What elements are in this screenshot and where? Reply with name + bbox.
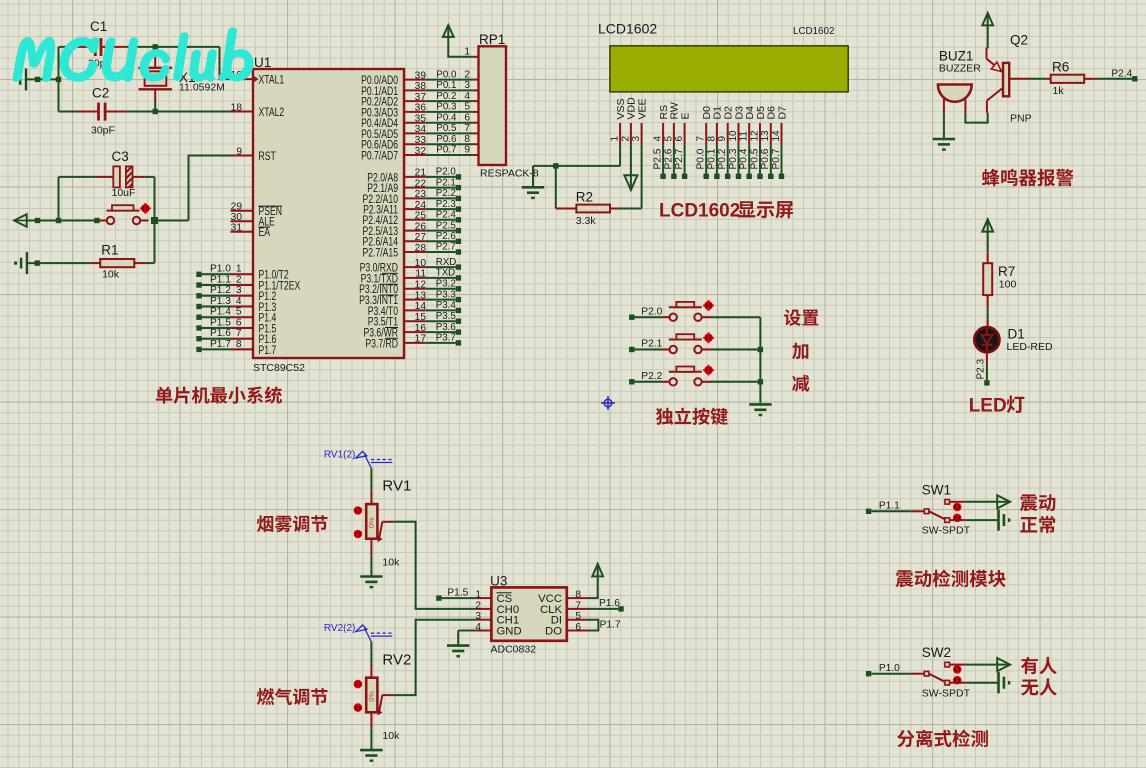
potentiometer RV1	[370, 468, 372, 490]
svg-text:39: 39	[415, 70, 427, 81]
svg-text:R2: R2	[576, 190, 593, 205]
caption 分离式检测	[897, 730, 988, 748]
resistor R6	[1046, 78, 1051, 80]
pin 27 P2.6/A14 wire	[404, 240, 426, 242]
wire P1.5 to CS	[441, 597, 476, 599]
svg-text:P2.4: P2.4	[1111, 69, 1132, 80]
wire to R1	[154, 221, 156, 264]
svg-text:P1.0: P1.0	[210, 264, 231, 275]
svg-text:14: 14	[771, 130, 782, 142]
svg-text:C3: C3	[112, 149, 129, 164]
svg-text:3.3k: 3.3k	[576, 215, 597, 227]
pin 24 P2.3/A11 wire	[404, 208, 426, 210]
junction dot crystal top	[153, 44, 158, 49]
svg-text:1: 1	[236, 264, 242, 275]
wire button row	[27, 220, 97, 222]
svg-text:34: 34	[415, 124, 427, 135]
wire RV1 bottom to ground	[370, 539, 372, 555]
svg-text:ADC0832: ADC0832	[491, 644, 537, 656]
svg-text:31: 31	[231, 223, 243, 234]
svg-text:P0.7: P0.7	[436, 145, 456, 156]
svg-text:P0.5: P0.5	[436, 123, 457, 134]
svg-text:P0.5: P0.5	[749, 148, 760, 169]
wire SW2 throw A to power	[950, 664, 966, 666]
svg-text:Q2: Q2	[1010, 33, 1028, 48]
ground symbol (RV2)	[360, 749, 382, 752]
svg-text:0%: 0%	[367, 691, 376, 702]
caption 蜂鸣器报警	[982, 169, 1074, 186]
ground symbol (R1)	[26, 252, 28, 274]
junction dot	[35, 260, 40, 265]
svg-text:D7: D7	[776, 106, 788, 120]
resistor R1	[134, 262, 145, 264]
svg-text:D1: D1	[1008, 327, 1025, 342]
capacitor C1	[78, 46, 94, 48]
svg-text:6: 6	[464, 112, 470, 123]
pin 16 P3.6/WR wire	[404, 331, 426, 333]
key button 2	[634, 349, 662, 351]
U3 pin 8 VCC stub	[567, 597, 588, 599]
svg-text:12: 12	[415, 280, 427, 291]
svg-text:10k: 10k	[382, 730, 400, 742]
svg-text:8: 8	[575, 590, 581, 601]
svg-text:18: 18	[231, 102, 243, 113]
pin 34 P0.5/AD5 wire to RP1 pin 7	[404, 132, 426, 134]
svg-text:P1.5: P1.5	[210, 317, 231, 328]
svg-text:36: 36	[415, 103, 427, 114]
terminal P1.0	[866, 671, 871, 676]
wire XTAL1 net (crystal to pin19)	[220, 47, 231, 79]
svg-text:6: 6	[575, 622, 581, 633]
svg-text:27: 27	[415, 232, 427, 243]
wire power to R7	[987, 232, 989, 253]
resistor R2	[556, 208, 577, 210]
terminal + wire P1.5 (pin 6)	[196, 325, 201, 330]
svg-text:P2.0: P2.0	[436, 167, 457, 178]
terminal P1.5	[436, 595, 441, 600]
svg-text:P0.0: P0.0	[436, 69, 457, 80]
svg-text:P3.7/RD: P3.7/RD	[365, 338, 398, 351]
ground symbol right (SW1)	[997, 510, 1000, 531]
junction dot	[758, 379, 763, 384]
svg-text:P2.0: P2.0	[641, 306, 662, 317]
wire RV1 wiper to CH0	[379, 522, 382, 538]
svg-text:P3.5: P3.5	[436, 311, 456, 322]
pin 35 P0.4/AD4 wire to RP1 pin 6	[404, 122, 426, 124]
svg-text:11: 11	[739, 131, 750, 142]
power terminal down (VDD)	[624, 175, 637, 190]
junction dot at rail	[56, 77, 61, 82]
svg-text:17: 17	[415, 334, 427, 345]
svg-text:5: 5	[663, 136, 674, 142]
pin 22 P2.1/A9 wire	[404, 187, 426, 189]
caption 震动检测模块	[896, 570, 1006, 588]
svg-text:P0.6: P0.6	[436, 134, 457, 145]
pin 21 P2.0/A8 wire	[404, 176, 426, 178]
svg-text:7: 7	[464, 123, 470, 134]
svg-text:C2: C2	[92, 86, 109, 101]
pin 37 P0.2/AD2 wire to RP1 pin 4	[404, 100, 426, 102]
svg-text:LED: LED	[969, 396, 1007, 417]
svg-text:U3: U3	[490, 574, 507, 589]
svg-text:4: 4	[653, 136, 664, 142]
svg-text:14: 14	[415, 301, 427, 312]
svg-text:2: 2	[475, 600, 481, 611]
svg-text:VEE: VEE	[636, 98, 648, 119]
svg-text:3: 3	[236, 285, 242, 296]
power terminal (VCC) left	[14, 220, 27, 222]
caption 震动	[1020, 494, 1056, 511]
wire D1 to P2.3 terminal	[986, 352, 988, 363]
svg-text:RST: RST	[259, 151, 277, 164]
svg-text:1: 1	[475, 590, 481, 601]
wire C3 left to button row rail	[58, 177, 60, 221]
switch SW1 SW-SPDT	[871, 510, 910, 512]
wire R6 to P2.4 terminal	[1098, 78, 1133, 80]
wire RP1 pin 1	[448, 37, 472, 57]
svg-text:4: 4	[236, 296, 242, 307]
svg-text:24: 24	[415, 200, 427, 211]
svg-text:P1.0: P1.0	[879, 663, 900, 674]
junction dot (RST node)	[151, 217, 158, 224]
probe marker RV2(2)	[356, 625, 393, 642]
svg-text:P3.4: P3.4	[436, 300, 457, 311]
caption 单片机最小系统	[156, 386, 282, 403]
wire C3 right down to junction	[154, 177, 156, 221]
transistor Q2 PNP	[986, 47, 988, 58]
svg-text:P0.0: P0.0	[696, 148, 707, 169]
svg-text:XTAL1: XTAL1	[259, 74, 285, 87]
svg-text:35: 35	[415, 114, 427, 125]
svg-text:30: 30	[231, 212, 243, 223]
buzzer BUZ1	[943, 95, 945, 113]
wire CLK to P1.6 terminal	[588, 608, 618, 610]
svg-text:P0.2: P0.2	[436, 91, 456, 102]
wire SW2 throw B to ground	[950, 682, 966, 684]
svg-text:TXD: TXD	[436, 268, 455, 279]
svg-text:P1.6: P1.6	[210, 328, 231, 339]
caption 正常	[1020, 516, 1055, 533]
svg-text:2: 2	[464, 69, 470, 80]
pin 39 P0.0/AD0 wire to RP1 pin 2	[404, 79, 426, 81]
U3 pin 6 DO stub	[567, 630, 588, 632]
svg-text:STC89C52: STC89C52	[253, 362, 305, 374]
pin 30 ALE stub	[231, 220, 254, 222]
svg-text:11: 11	[415, 269, 426, 280]
crystal X1	[154, 47, 156, 57]
svg-text:P2.5: P2.5	[653, 148, 664, 169]
wire VEE down	[641, 144, 643, 208]
svg-text:P1.5: P1.5	[447, 588, 468, 599]
power terminal right (SW2)	[997, 658, 1010, 671]
svg-text:P2.6: P2.6	[436, 231, 456, 242]
svg-text:26: 26	[415, 221, 427, 232]
switch SW2 SW-SPDT	[871, 673, 910, 675]
terminal P2.1	[629, 347, 634, 352]
svg-text:3: 3	[631, 136, 642, 142]
svg-text:R6: R6	[1052, 60, 1069, 75]
svg-text:7: 7	[575, 600, 581, 611]
caption 有人	[1021, 657, 1057, 674]
pin 10 P3.0/RXD wire	[404, 266, 426, 268]
svg-text:P2.2: P2.2	[436, 188, 456, 199]
ground symbol (C1/C2 rail)	[25, 68, 27, 90]
svg-text:9: 9	[717, 136, 728, 142]
svg-text:RV2(2): RV2(2)	[324, 623, 356, 634]
wire R2 branch	[555, 166, 557, 209]
svg-text:30pF: 30pF	[91, 125, 115, 137]
terminal P2.0	[629, 315, 634, 320]
ground symbol (U3)	[447, 644, 469, 647]
svg-text:100: 100	[999, 279, 1017, 291]
terminal P2.3	[984, 380, 989, 385]
svg-text:P0.6: P0.6	[760, 148, 771, 169]
svg-text:5: 5	[236, 307, 242, 318]
svg-text:P0.3: P0.3	[728, 148, 739, 169]
svg-text:P0.3: P0.3	[436, 102, 457, 113]
svg-text:E: E	[679, 112, 691, 119]
svg-text:BUZ1: BUZ1	[939, 49, 974, 64]
probe marker RV1(2)	[356, 451, 393, 468]
wire VDD to power	[630, 144, 632, 175]
svg-text:P1.1: P1.1	[210, 274, 231, 285]
svg-text:10: 10	[415, 258, 427, 269]
svg-text:LCD1602: LCD1602	[659, 201, 740, 222]
svg-text:P1.1: P1.1	[879, 501, 900, 512]
svg-text:5: 5	[575, 611, 581, 622]
svg-text:P2.1: P2.1	[641, 339, 662, 350]
svg-text:P1.7: P1.7	[259, 345, 277, 358]
svg-text:P3.7: P3.7	[436, 333, 456, 344]
caption 无人	[1021, 678, 1057, 695]
svg-text:P2.1: P2.1	[436, 177, 456, 188]
svg-text:EA: EA	[259, 227, 271, 240]
svg-text:P3.6: P3.6	[436, 322, 456, 333]
svg-text:23: 23	[415, 189, 427, 200]
pin 23 P2.2/A10 wire	[404, 197, 426, 199]
svg-text:R7: R7	[998, 264, 1015, 279]
wire RV2 wiper to CH1	[379, 695, 382, 711]
svg-text:25: 25	[415, 211, 427, 222]
power terminal (U3 VCC)	[592, 564, 603, 577]
pin 9 RST stub	[231, 155, 254, 157]
svg-text:P3.2: P3.2	[436, 279, 456, 290]
wire VCC to power	[588, 576, 598, 598]
wire GND pin to ground	[458, 630, 476, 632]
junction dot VSS/R2	[553, 163, 558, 168]
svg-text:SW-SPDT: SW-SPDT	[922, 687, 971, 699]
pin 29 PSEN stub	[231, 210, 254, 212]
wire RST net	[158, 220, 189, 222]
terminal P2.4	[1132, 76, 1137, 81]
potentiometer RV2	[370, 642, 372, 664]
svg-text:6: 6	[236, 317, 242, 328]
pin 36 P0.3/AD3 wire to RP1 pin 5	[404, 111, 426, 113]
LED D1	[987, 319, 989, 328]
caption 独立按键	[656, 408, 728, 425]
svg-text:0%: 0%	[367, 517, 376, 528]
svg-text:32: 32	[415, 146, 427, 157]
svg-text:6: 6	[674, 136, 685, 142]
svg-text:P2.6: P2.6	[663, 148, 674, 169]
wire top XTAL1 net	[59, 46, 79, 48]
svg-text:P1.7: P1.7	[600, 619, 621, 630]
svg-text:P0.4: P0.4	[436, 112, 457, 123]
junction dot rail	[56, 218, 61, 223]
svg-text:BUZZER: BUZZER	[939, 63, 981, 75]
svg-text:RESPACK-8: RESPACK-8	[480, 168, 539, 180]
respack RP1 body	[479, 46, 507, 165]
svg-text:SW2: SW2	[922, 645, 951, 660]
svg-text:P2.3: P2.3	[976, 358, 987, 379]
svg-text:4: 4	[475, 622, 481, 633]
svg-text:P2.7: P2.7	[674, 148, 685, 169]
junction dot before button	[94, 218, 99, 223]
svg-text:13: 13	[760, 130, 771, 142]
svg-text:SW1: SW1	[922, 482, 951, 497]
capacitor C3 (electrolytic 10uF)	[59, 176, 97, 178]
svg-text:2: 2	[236, 274, 242, 285]
wire DI-DO loop P1.7	[588, 620, 598, 631]
chip U1 body STC89C52	[253, 69, 404, 358]
svg-text:P2.5: P2.5	[436, 220, 456, 231]
wire SW1 throw A to power	[950, 501, 966, 503]
svg-text:P3.3: P3.3	[436, 289, 456, 300]
svg-text:P0.4: P0.4	[739, 148, 750, 169]
caption 加	[792, 343, 808, 360]
svg-text:P0.1: P0.1	[706, 148, 717, 169]
pin 26 P2.5/A13 wire	[404, 230, 426, 232]
svg-text:9: 9	[464, 145, 470, 156]
svg-text:P2.7/A15: P2.7/A15	[363, 247, 399, 260]
svg-text:C1: C1	[90, 19, 107, 34]
pushbutton interactive marker	[140, 207, 151, 209]
svg-text:DO: DO	[545, 626, 562, 638]
svg-text:2: 2	[620, 136, 631, 142]
svg-text:RP1: RP1	[479, 32, 505, 47]
key button 3	[634, 381, 662, 383]
terminal + wire P1.3 (pin 4)	[196, 304, 201, 309]
svg-text:P1.6: P1.6	[599, 598, 620, 609]
svg-text:5: 5	[464, 102, 470, 113]
ground symbol (LCD VSS)	[532, 166, 534, 186]
svg-text:11.0592M: 11.0592M	[179, 82, 225, 94]
pin 15 P3.5/T1 wire	[404, 320, 426, 322]
pin 28 P2.7/A15 wire	[404, 251, 426, 253]
pin 13 P3.3/INT1 wire	[404, 299, 426, 301]
ground symbol (keys)	[749, 403, 771, 406]
chip U3 body ADC0832	[491, 587, 566, 640]
svg-text:8: 8	[706, 136, 717, 142]
svg-text:15: 15	[415, 312, 427, 323]
U3 pin 5 DI stub	[567, 619, 588, 621]
svg-text:GND: GND	[497, 626, 522, 638]
power terminal (RP1 pin1)	[443, 25, 454, 37]
U3 pin 7 CLK stub	[567, 608, 588, 610]
wire bottom XTAL2 net	[59, 111, 79, 113]
terminal + wire P1.4 (pin 5)	[196, 315, 201, 320]
svg-text:38: 38	[415, 81, 427, 92]
svg-text:P1.4: P1.4	[210, 307, 231, 318]
pin 32 P0.7/AD7 wire to RP1 pin 9	[404, 154, 426, 156]
terminal + wire P1.2 (pin 3)	[196, 293, 201, 298]
svg-text:LCD1602: LCD1602	[793, 26, 834, 37]
svg-text:P1.3: P1.3	[210, 296, 231, 307]
pin 17 P3.7/RD wire	[404, 342, 426, 344]
svg-text:8: 8	[464, 134, 470, 145]
ground symbol (buzzer)	[933, 138, 955, 141]
svg-text:28: 28	[415, 243, 427, 254]
svg-text:U1: U1	[254, 55, 271, 70]
caption 烟雾调节	[257, 515, 328, 532]
svg-text:XTAL2: XTAL2	[259, 107, 285, 120]
power terminal right (SW1)	[997, 495, 1010, 508]
terminal + wire P1.7 (pin 8)	[196, 347, 201, 352]
svg-text:10k: 10k	[102, 269, 120, 281]
svg-text:P1.7: P1.7	[210, 339, 231, 350]
pin 19 XTAL1 stub	[231, 78, 254, 80]
svg-text:P2.7: P2.7	[436, 242, 456, 253]
svg-text:1k: 1k	[1053, 85, 1065, 97]
U3 pin 2 CH0 stub	[476, 608, 492, 610]
svg-text:RV2: RV2	[382, 651, 411, 668]
svg-text:1: 1	[464, 47, 470, 58]
svg-text:37: 37	[415, 92, 427, 103]
wire ground to rail	[26, 78, 59, 80]
caption 设置	[784, 309, 818, 326]
junction dot crystal bottom	[153, 109, 158, 114]
wire R1 to ground	[27, 262, 90, 264]
svg-text:7: 7	[696, 136, 707, 142]
power terminal (LED)	[982, 219, 993, 231]
svg-text:3: 3	[475, 611, 481, 622]
terminal + wire P1.1 (pin 2)	[196, 282, 201, 287]
wire Q2 base to R6	[1009, 78, 1030, 80]
key button 1	[634, 316, 662, 318]
XTAL1 clock arrow	[253, 75, 259, 82]
svg-text:9: 9	[236, 146, 242, 157]
resistor R7 (vertical)	[987, 252, 989, 263]
svg-text:12: 12	[749, 130, 760, 142]
wire buzzer to ground	[943, 113, 945, 138]
svg-text:4: 4	[464, 91, 470, 102]
svg-text:LCD1602: LCD1602	[598, 21, 657, 37]
svg-text:SW-SPDT: SW-SPDT	[922, 525, 971, 537]
pin 25 P2.4/A12 wire	[404, 219, 426, 221]
junction dot	[35, 218, 40, 223]
caption 燃气调节	[257, 688, 328, 705]
svg-text:LED-RED: LED-RED	[1007, 341, 1054, 353]
capacitor C2	[78, 111, 97, 113]
pin 33 P0.6/AD6 wire to RP1 pin 8	[404, 143, 426, 145]
wire SW1 throw B to ground	[950, 519, 966, 521]
svg-text:RXD: RXD	[436, 257, 456, 268]
terminal + wire P1.6 (pin 7)	[196, 336, 201, 341]
svg-text:16: 16	[415, 323, 427, 334]
pin 31 EA stub	[231, 231, 254, 233]
wire left rail	[58, 47, 60, 112]
U3 pin 1 CS stub	[476, 597, 492, 599]
svg-text:10: 10	[728, 130, 739, 142]
wire R7 to D1	[987, 310, 989, 320]
svg-text:P2.3: P2.3	[436, 199, 456, 210]
svg-text:P0.7/AD7: P0.7/AD7	[361, 150, 398, 163]
wire power to Q2 emitter	[987, 25, 989, 48]
wire RV2 bottom to ground	[370, 713, 372, 729]
ground symbol right (SW2)	[997, 672, 1000, 693]
svg-text:P0.7: P0.7	[771, 148, 782, 169]
svg-text:13: 13	[415, 290, 427, 301]
